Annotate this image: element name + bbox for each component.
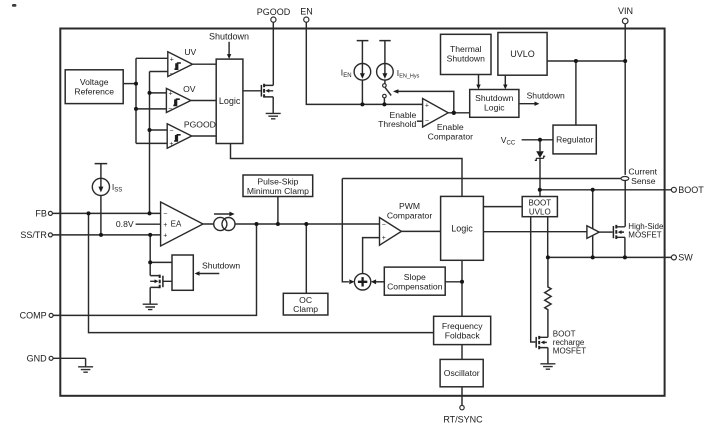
svg-text:Sense: Sense <box>631 176 656 186</box>
svg-text:UV: UV <box>184 47 196 57</box>
svg-text:MOSFET: MOSFET <box>628 231 661 240</box>
svg-text:Shutdown: Shutdown <box>202 260 240 270</box>
svg-text:SS/TR: SS/TR <box>20 230 47 240</box>
svg-text:Clamp: Clamp <box>293 304 318 314</box>
svg-text:Threshold: Threshold <box>378 119 416 129</box>
svg-text:COMP: COMP <box>20 310 47 320</box>
svg-text:Oscillator: Oscillator <box>444 368 480 378</box>
svg-text:BOOT: BOOT <box>678 185 704 195</box>
svg-text:Voltage: Voltage <box>80 77 109 87</box>
svg-text:SW: SW <box>678 253 693 263</box>
svg-text:+: + <box>425 102 429 109</box>
svg-text:−: − <box>163 211 167 218</box>
svg-text:PWM: PWM <box>399 201 420 211</box>
svg-text:Comparator: Comparator <box>387 211 433 221</box>
svg-text:BOOT: BOOT <box>528 199 551 208</box>
svg-text:UVLO: UVLO <box>529 208 551 217</box>
svg-text:EA: EA <box>171 220 182 229</box>
svg-text:Minimum Clamp: Minimum Clamp <box>247 186 309 196</box>
svg-text:MOSFET: MOSFET <box>553 347 586 356</box>
svg-text:Shutdown: Shutdown <box>209 32 249 42</box>
svg-text:UVLO: UVLO <box>510 49 535 59</box>
svg-text:EN: EN <box>300 7 313 17</box>
svg-text:GND: GND <box>27 353 48 363</box>
svg-text:Logic: Logic <box>451 223 473 233</box>
svg-text:+: + <box>169 141 173 148</box>
svg-text:+: + <box>170 56 174 63</box>
svg-text:Reference: Reference <box>74 87 114 97</box>
svg-text:PGOOD: PGOOD <box>257 7 291 17</box>
svg-text:−: − <box>169 128 173 135</box>
svg-text:OV: OV <box>183 84 196 94</box>
svg-text:−: − <box>425 118 429 125</box>
svg-text:+: + <box>169 91 173 98</box>
svg-text:+: + <box>382 235 386 242</box>
svg-text:0.8V: 0.8V <box>116 219 134 229</box>
svg-text:+: + <box>163 233 167 240</box>
svg-text:Logic: Logic <box>484 103 505 113</box>
svg-text:Foldback: Foldback <box>445 331 481 341</box>
svg-text:Current: Current <box>628 167 657 177</box>
svg-text:+: + <box>163 222 167 229</box>
svg-text:−: − <box>168 106 172 113</box>
svg-text:Compensation: Compensation <box>387 281 443 291</box>
svg-text:Shutdown: Shutdown <box>475 93 513 103</box>
svg-text:Shutdown: Shutdown <box>527 90 565 100</box>
svg-text:Shutdown: Shutdown <box>447 53 485 63</box>
svg-text:Logic: Logic <box>219 96 241 106</box>
svg-text:Regulator: Regulator <box>556 135 593 145</box>
svg-text:−: − <box>170 71 174 78</box>
svg-text:Comparator: Comparator <box>428 131 474 141</box>
svg-text:RT/SYNC: RT/SYNC <box>443 415 483 425</box>
svg-text:PGOOD: PGOOD <box>184 119 216 129</box>
svg-text:−: − <box>382 221 386 228</box>
svg-text:VIN: VIN <box>618 6 633 16</box>
svg-text:Thermal: Thermal <box>450 44 482 54</box>
svg-text:FB: FB <box>35 208 47 218</box>
